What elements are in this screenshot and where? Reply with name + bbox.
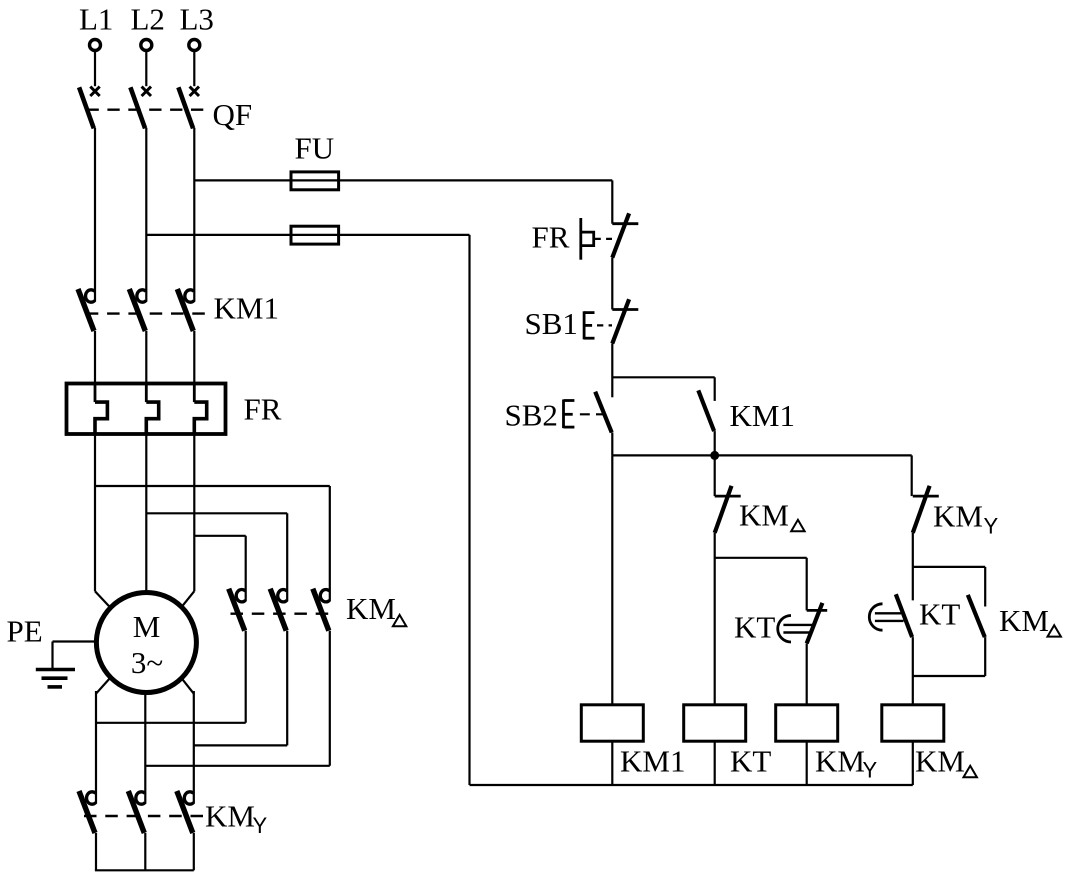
breaker QF pole 1 blade bbox=[79, 87, 94, 128]
label KM-delta (interlock) bbox=[739, 498, 805, 533]
wire fuse feed 1 bbox=[194, 179, 612, 181]
wire delta link V2 bbox=[145, 765, 329, 767]
breaker QF pole 2 fixed contact x-mark bbox=[142, 87, 151, 96]
label KM-delta (aux NO) bbox=[999, 603, 1061, 638]
svg-text:SB2: SB2 bbox=[505, 398, 558, 433]
wire branch4 to KM-delta coil bbox=[912, 637, 914, 705]
contactor KM-delta main contact pole 3 bbox=[313, 589, 330, 631]
label PE bbox=[7, 614, 43, 649]
wire KM-delta pole2 down bbox=[286, 631, 288, 746]
wire return to fuse FU2 bbox=[468, 235, 470, 785]
contactor KM-Y main contact pole 1 bbox=[79, 791, 96, 833]
FR heater element pole 3 bbox=[194, 384, 206, 435]
wire L2 QF to KM1 bbox=[145, 128, 147, 302]
wire KM1 pole 1 to FR bbox=[94, 331, 96, 384]
svg-text:L1: L1 bbox=[79, 2, 113, 37]
contactor KM1 main contact pole 3 bbox=[177, 289, 194, 331]
svg-text:FR: FR bbox=[244, 392, 282, 427]
KM-delta NC interlock crossbar bbox=[715, 495, 741, 498]
label FU bbox=[295, 131, 335, 166]
wire tap V to KM-delta pole2 bbox=[146, 513, 287, 601]
contactor KM1 main contact pole 2 bbox=[129, 289, 146, 331]
KT NC delayed contact crossbar bbox=[807, 609, 828, 612]
wire seal-in branch top bbox=[612, 377, 714, 401]
contactor KM-delta main contact pole 1 bbox=[229, 589, 246, 631]
breaker QF pole 3 blade bbox=[178, 87, 193, 128]
motor label 3~ bbox=[131, 645, 163, 680]
wire L3 QF to KM1 bbox=[193, 128, 195, 302]
svg-text:FU: FU bbox=[295, 131, 335, 166]
wire L1 QF to KM1 bbox=[94, 128, 96, 302]
svg-text:KM: KM bbox=[739, 498, 789, 533]
motor label M bbox=[133, 609, 161, 644]
wire KM1 aux to node bbox=[714, 431, 716, 455]
wire branch4 mid bbox=[912, 533, 914, 601]
wire FR pole3 to motor bbox=[181, 434, 194, 608]
svg-text:Y: Y bbox=[863, 758, 878, 783]
wire KM-Y coil to bus bbox=[806, 741, 808, 785]
KM1 aux NO contact blade bbox=[698, 390, 714, 431]
svg-text:L3: L3 bbox=[180, 2, 214, 37]
svg-text:QF: QF bbox=[213, 97, 253, 132]
SB1 button actuator bbox=[584, 311, 594, 339]
svg-text:Y: Y bbox=[984, 514, 999, 539]
svg-text:M: M bbox=[133, 609, 161, 644]
label KM1 (coil) bbox=[620, 744, 685, 779]
label KM-delta (coil) bbox=[915, 744, 977, 779]
label SB1 bbox=[525, 306, 578, 341]
label KM-Y (coil) bbox=[815, 744, 878, 783]
KM-Y linkage (dashed) bbox=[84, 815, 207, 817]
wire KM1 pole 2 to FR bbox=[145, 331, 147, 384]
motor M circle bbox=[96, 593, 196, 693]
contactor KM-Y main contact pole 3 bbox=[177, 791, 194, 833]
label FR (control) bbox=[532, 220, 570, 255]
wire KM-delta pole1 down bbox=[245, 631, 247, 723]
wire branch2 top bbox=[714, 455, 716, 496]
wire 4b rejoin bbox=[913, 637, 985, 676]
KM-delta NC interlock blade bbox=[715, 486, 732, 533]
wire KM-delta pole3 down bbox=[329, 631, 331, 766]
wire KM1 coil to bus bbox=[611, 741, 613, 785]
label QF bbox=[213, 97, 253, 132]
wire FR pole1 to motor bbox=[95, 434, 111, 608]
contactor KM-Y main contact pole 2 bbox=[128, 791, 145, 833]
svg-text:KM: KM bbox=[915, 744, 965, 779]
label FR (overload) bbox=[244, 392, 282, 427]
ground symbol bbox=[36, 670, 75, 687]
wire control bus bbox=[612, 455, 911, 496]
FR NC contact blade bbox=[612, 213, 629, 257]
wire motor u2 down bbox=[96, 678, 111, 804]
wire fuse feed 2 bbox=[146, 234, 469, 236]
SB1 dashes bbox=[597, 324, 612, 326]
KM-delta linkage (dashed) bbox=[231, 613, 332, 615]
label SB2 bbox=[505, 398, 558, 433]
node junction dot bbox=[710, 451, 719, 460]
fuse FU2 bbox=[291, 226, 339, 244]
KT delay symbol (right) bbox=[869, 604, 903, 630]
wire L3 drop bbox=[193, 52, 195, 86]
SB2 NO contact blade bbox=[595, 392, 612, 433]
label L2 bbox=[131, 2, 165, 37]
wire KM-Y pole3 down bbox=[193, 833, 195, 870]
label KM1 (main contacts) bbox=[214, 291, 279, 326]
breaker QF pole 3 fixed contact x-mark bbox=[190, 87, 199, 96]
wire SB2 to bus bbox=[611, 432, 613, 455]
svg-text:KM: KM bbox=[815, 744, 865, 779]
KT delay symbol (left) bbox=[778, 616, 813, 643]
svg-text:KM1: KM1 bbox=[730, 398, 795, 433]
wire tap W to KM-delta pole1 bbox=[194, 536, 245, 602]
wire KM-delta coil to bus bbox=[912, 741, 914, 785]
wire control main drop bbox=[611, 180, 613, 223]
label L3 bbox=[180, 2, 214, 37]
wire motor v2 down bbox=[144, 691, 146, 803]
wire KM1 pole 3 to FR bbox=[193, 331, 195, 384]
coil KT bbox=[684, 705, 746, 741]
SB2 button actuator bbox=[564, 400, 575, 429]
coil KM-delta bbox=[882, 705, 944, 741]
wire branch2 to branch3 bbox=[715, 558, 807, 611]
label KT (delayed NC) bbox=[734, 610, 775, 645]
KM1 linkage (dashed) bbox=[86, 312, 207, 314]
wire FR pole2 to motor bbox=[145, 434, 147, 594]
KT NO delayed contact blade bbox=[896, 594, 912, 637]
svg-text:KM: KM bbox=[205, 799, 255, 834]
wire bottom bus bbox=[470, 784, 913, 786]
wire branch4 to 4b bbox=[913, 567, 985, 607]
svg-text:PE: PE bbox=[7, 614, 43, 649]
SB2 dashes bbox=[580, 413, 605, 415]
fuse FU1 bbox=[291, 172, 339, 190]
wire motor w2 down bbox=[181, 678, 194, 804]
terminal L1 bbox=[90, 40, 101, 51]
FR heater element pole 2 bbox=[146, 384, 158, 435]
svg-text:KM1: KM1 bbox=[620, 744, 685, 779]
wire SB1 to branch bbox=[611, 344, 613, 398]
KT NC delayed contact blade bbox=[807, 603, 823, 644]
KM-delta aux NO contact blade bbox=[968, 595, 985, 637]
wire L1 drop bbox=[94, 52, 96, 86]
KM-Y NC interlock crossbar bbox=[913, 495, 939, 498]
wire L2 drop bbox=[145, 52, 147, 86]
svg-text:L2: L2 bbox=[131, 2, 165, 37]
contactor KM1 main contact pole 1 bbox=[78, 289, 95, 331]
wire delta link U2 bbox=[96, 722, 246, 724]
label KM-delta (main contacts) bbox=[346, 591, 406, 626]
wire main to KM1 coil bbox=[611, 455, 613, 705]
label L1 bbox=[79, 2, 113, 37]
contactor KM-delta main contact pole 2 bbox=[270, 589, 287, 631]
wire branch3 to KM-Y coil bbox=[806, 643, 808, 705]
wire KM-Y pole1 down bbox=[95, 833, 97, 870]
wire tap U to KM-delta pole3 bbox=[95, 486, 330, 601]
svg-text:KT: KT bbox=[734, 610, 775, 645]
coil KM-Y bbox=[776, 705, 838, 741]
svg-text:FR: FR bbox=[532, 220, 570, 255]
thermal relay FR box bbox=[67, 384, 226, 435]
breaker QF linkage (dashed) bbox=[87, 108, 208, 110]
label KT (delayed NO) bbox=[919, 597, 960, 632]
FR trip paddle bbox=[581, 218, 594, 260]
FR trip dashes bbox=[595, 238, 612, 240]
KM-Y NC interlock blade bbox=[913, 486, 930, 533]
wire star point bus bbox=[95, 869, 194, 871]
svg-text:KM: KM bbox=[933, 499, 983, 534]
coil KM1 bbox=[581, 705, 643, 741]
svg-text:SB1: SB1 bbox=[525, 306, 578, 341]
svg-text:KM: KM bbox=[346, 591, 396, 626]
wire delta link W2 bbox=[194, 744, 287, 746]
terminal L2 bbox=[141, 40, 152, 51]
label KT (coil) bbox=[730, 744, 771, 779]
FR heater element pole 1 bbox=[95, 384, 107, 435]
SB1 NC contact blade bbox=[612, 299, 629, 343]
wire branch2 to KT coil bbox=[714, 533, 716, 705]
svg-text:KM: KM bbox=[999, 603, 1049, 638]
svg-text:KM1: KM1 bbox=[214, 291, 279, 326]
SB1 NC contact crossbar bbox=[612, 308, 638, 311]
label KM1 (aux contact) bbox=[730, 398, 795, 433]
svg-text:Y: Y bbox=[253, 813, 268, 838]
breaker QF pole 1 fixed contact x-mark bbox=[90, 87, 99, 96]
svg-text:KT: KT bbox=[919, 597, 960, 632]
wire PE bbox=[53, 642, 98, 669]
wire FR to SB1 bbox=[611, 258, 613, 310]
terminal L3 bbox=[189, 40, 200, 51]
breaker QF pole 2 blade bbox=[130, 87, 145, 128]
svg-text:KT: KT bbox=[730, 744, 771, 779]
svg-text:3~: 3~ bbox=[131, 645, 163, 680]
wire KT coil to bus bbox=[714, 741, 716, 785]
wire KM-Y pole2 down bbox=[144, 833, 146, 870]
label KM-Y (main contacts) bbox=[205, 799, 268, 838]
FR NC contact crossbar bbox=[612, 222, 638, 225]
label KM-Y (interlock) bbox=[933, 499, 999, 539]
